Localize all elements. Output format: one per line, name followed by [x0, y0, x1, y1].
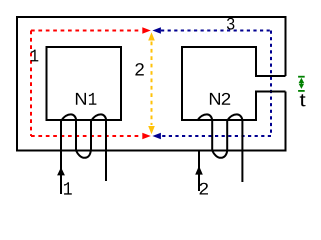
winding N2 turn arc 2	[227, 114, 242, 120]
winding label N2 "N"	[210, 93, 220, 105]
winding label N1 "N"	[76, 93, 86, 105]
air gap dimension up arrowhead	[299, 78, 305, 83]
air gap label "t"	[300, 94, 306, 106]
winding N1 exit wire	[105, 120, 107, 181]
winding label N1 "1"	[89, 93, 97, 105]
flux path 2 label "2"	[135, 63, 143, 75]
winding N1 turn arc 2	[91, 114, 106, 120]
winding N2 wire down through window	[211, 120, 213, 151]
winding N1 entry wire	[60, 120, 62, 194]
flux path 1 arrowhead bottom	[142, 133, 151, 140]
current 2 label "2"	[200, 183, 208, 195]
core right window and air gap slit outline	[182, 47, 286, 120]
winding N2 turn arc 1	[197, 114, 212, 120]
winding N1 under-loop below core	[76, 151, 91, 158]
core left window outline	[47, 47, 122, 120]
air gap dimension marker bottom bar	[298, 90, 305, 92]
flux path 3 (navy dashed loop around outer legs)	[161, 31, 271, 137]
winding N1 wire up through bottom bar	[90, 120, 92, 151]
flux path 1 label "1"	[31, 50, 39, 62]
flux path 3 arrowhead bottom	[152, 133, 161, 140]
winding label N2 "2"	[222, 93, 230, 105]
flux path 3 label "3"	[227, 18, 234, 30]
flux path 2 arrowhead down	[148, 126, 155, 134]
air gap dimension down arrowhead	[299, 84, 305, 89]
current 1 label "1"	[64, 182, 72, 194]
winding N2 entry wire	[198, 150, 200, 191]
winding N2 under-loop below core	[212, 151, 227, 158]
current arrow i1	[57, 167, 65, 175]
flux path 1 arrowhead top	[142, 27, 151, 34]
winding N2 wire up through bottom bar	[226, 120, 228, 151]
air gap dimension marker top bar	[298, 76, 305, 78]
winding N2 exit wire	[241, 120, 243, 182]
flux path 2 arrowhead up	[148, 32, 155, 40]
core outer outline with air gap on right leg	[17, 17, 286, 151]
winding N1 wire down through window	[75, 120, 77, 151]
flux path 1 (red dashed loop around left window)	[31, 31, 142, 137]
winding N1 turn arc 1	[61, 114, 76, 120]
current arrow i2	[195, 166, 203, 175]
flux path 2 (gold dashed vertical through center leg)	[151, 42, 153, 126]
air gap dimension double arrow stem	[300, 81, 302, 86]
flux path 3 arrowhead top	[152, 27, 161, 34]
